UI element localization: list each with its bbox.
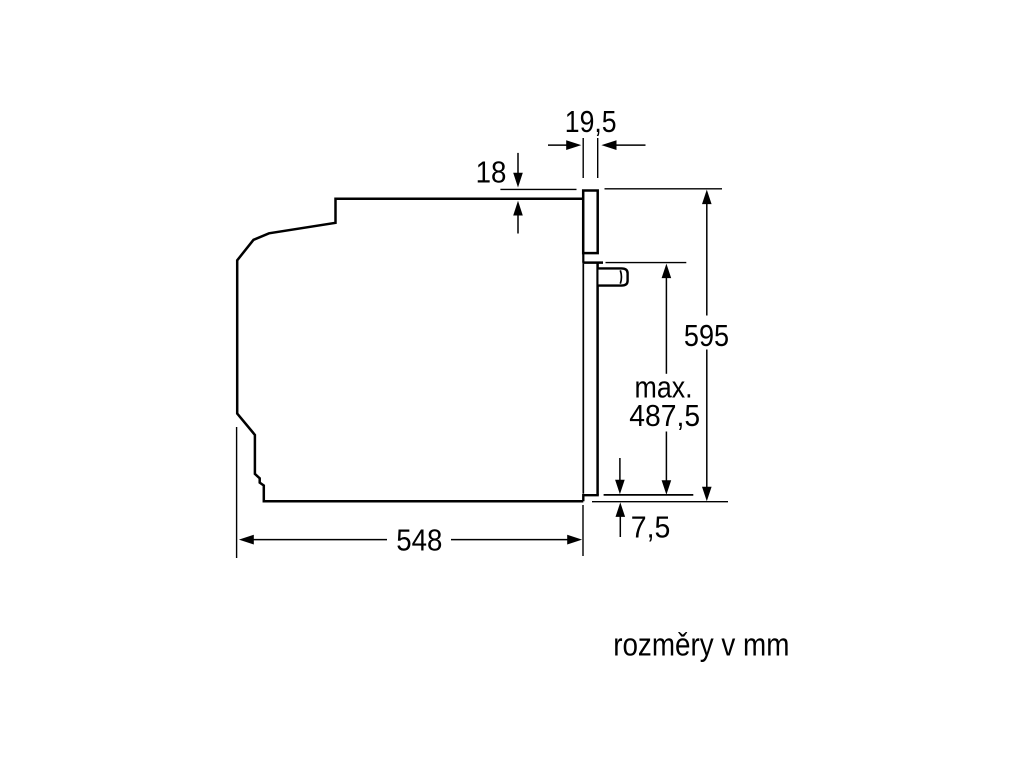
dim max 487,5 top reference line (606, 262, 687, 264)
dim 19,5 right arrow (616, 144, 646, 146)
oven bottom reference line (592, 501, 728, 503)
hinge knob (599, 268, 628, 285)
svg-text:487,5: 487,5 (629, 398, 700, 433)
dim 19,5 right extension line (597, 138, 599, 178)
oven body outline (237, 199, 583, 502)
dim 595 top reference line (605, 188, 723, 190)
door bottom reference line (604, 494, 694, 496)
door top shelf (582, 261, 603, 264)
dim 18 reference line (500, 188, 576, 190)
svg-text:595: 595 (684, 318, 729, 353)
control panel (583, 191, 598, 254)
oven front bottom step (583, 494, 597, 501)
dim 595 vertical line with arrows (702, 190, 712, 205)
door inner line (582, 264, 584, 494)
svg-text:7,5: 7,5 (631, 509, 671, 544)
svg-text:548: 548 (396, 522, 442, 557)
svg-text:rozměry v mm: rozměry v mm (613, 627, 789, 663)
dim max 487,5 vertical line with arrows (662, 264, 672, 279)
dim 18 down arrow (517, 153, 519, 174)
svg-text:18: 18 (476, 155, 507, 190)
dim 7,5 up arrow (619, 516, 621, 537)
dim 19,5 left extension line (582, 138, 584, 178)
svg-text:19,5: 19,5 (565, 104, 617, 139)
dim 548 left extension line (236, 427, 238, 558)
dim 548 line right part with arrow (451, 539, 569, 541)
recess below panel (582, 253, 584, 263)
door front face (596, 263, 599, 496)
hinge knob inner arc (620, 270, 621, 283)
dim 19,5 left arrow (548, 144, 567, 146)
dim 7,5 down arrow (619, 458, 621, 481)
dim 548 right extension line (582, 505, 584, 556)
dim 18 up arrow (517, 215, 519, 234)
dim 548 line left part with arrow (239, 535, 254, 545)
